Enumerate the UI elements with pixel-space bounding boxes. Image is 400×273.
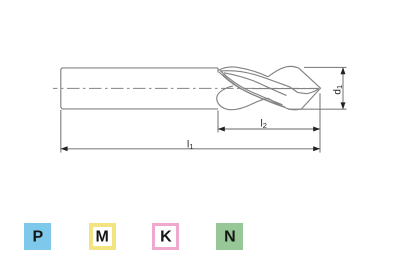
svg-text:d1: d1 <box>333 85 345 95</box>
svg-text:l1: l1 <box>187 139 193 151</box>
svg-text:l2: l2 <box>261 118 267 130</box>
